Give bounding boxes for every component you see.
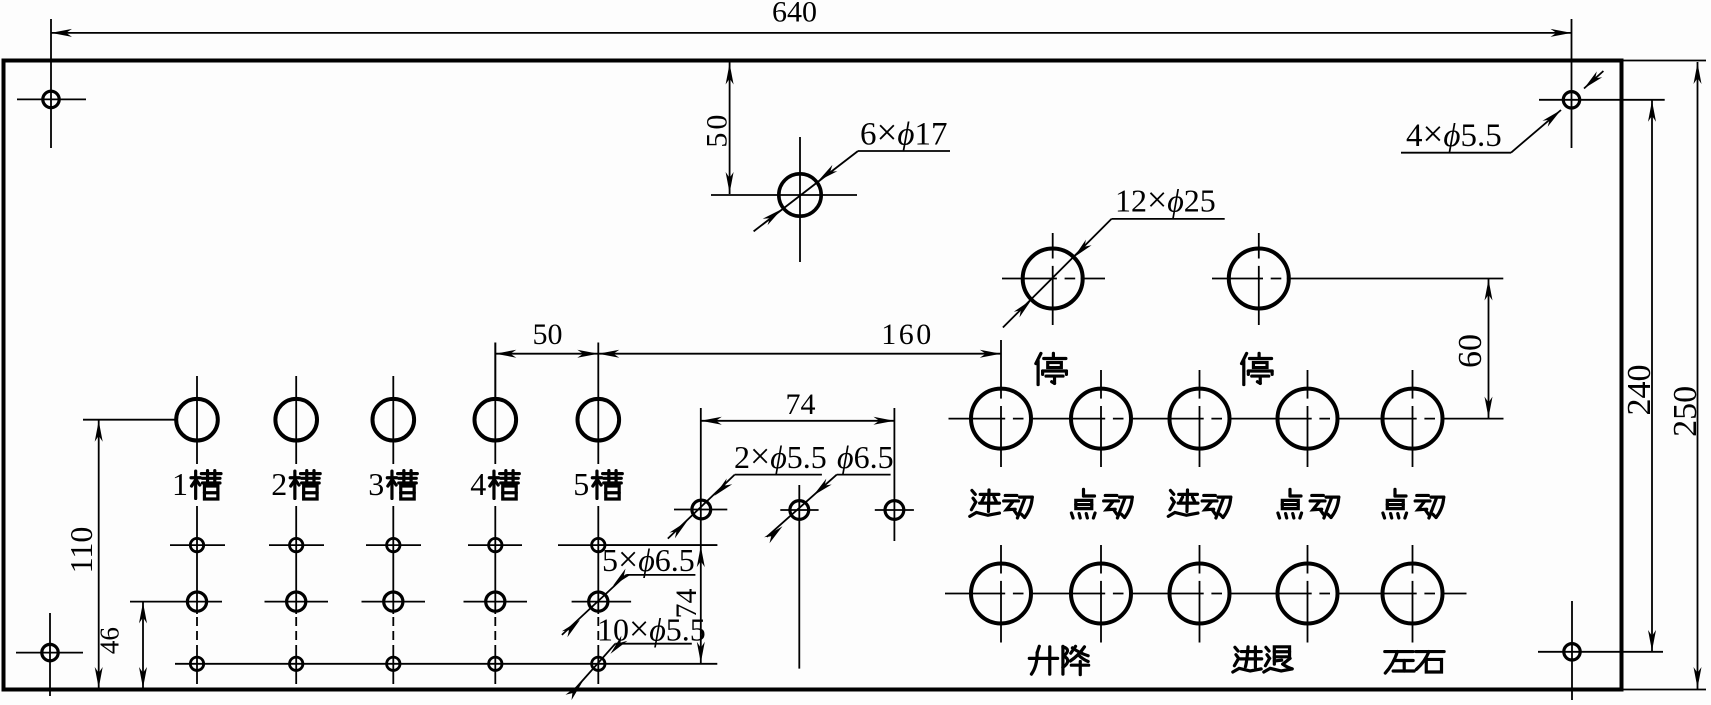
dimension text 250 xyxy=(1667,386,1704,437)
dimension line 640 xyxy=(51,29,1572,37)
hole row1 col1 (phi5.5) xyxy=(190,538,203,551)
label 2-cao xyxy=(271,466,320,502)
centerline row1 col5 xyxy=(558,544,717,546)
dimension line 50 (slots) xyxy=(495,350,598,358)
svg-text:3: 3 xyxy=(368,466,384,502)
centerline stop#2 horizontal / 60 extension xyxy=(1212,278,1503,280)
leader 4xphi5.5 far arrow xyxy=(1584,71,1603,89)
centerline hole B vertical xyxy=(798,485,800,669)
leader 4xphi5.5 diagonal xyxy=(1511,110,1561,153)
centerline bottom #1 vertical xyxy=(1000,545,1002,643)
svg-text:160: 160 xyxy=(881,318,934,351)
callout text 2xphi5.5 xyxy=(734,436,827,476)
slot column #1 vertical centerline xyxy=(196,376,198,614)
centerline row1 col2 xyxy=(269,544,324,546)
hole row3 col2 (phi5.5) xyxy=(290,657,303,670)
corner hole top-right xyxy=(1563,92,1579,108)
leader 10xphi5.5 diagonal xyxy=(566,636,628,701)
centerline row2 col1 xyxy=(130,601,222,603)
centerline gaps middle row xyxy=(999,399,1440,421)
svg-text:5×ϕ6.5: 5×ϕ6.5 xyxy=(602,539,695,579)
corner hole bottom-right xyxy=(1564,644,1580,660)
slot column #1 dashed centerline xyxy=(196,617,198,653)
slot column #4 dashed centerline xyxy=(494,617,496,653)
centerline phi17 horizontal xyxy=(711,194,857,196)
hole row1 col3 (phi5.5) xyxy=(387,538,400,551)
centerline gaps stop row xyxy=(1051,259,1287,281)
label jintui xyxy=(1233,647,1292,672)
slot column #2 vertical centerline xyxy=(295,376,297,614)
dimension text 240 xyxy=(1621,365,1658,416)
hole row3 col3 (phi5.5) xyxy=(387,657,400,670)
hole row2 col2 (phi6.5) xyxy=(287,592,306,611)
dimension line 60 xyxy=(1485,279,1493,419)
callout text 4xphi5.5 xyxy=(1406,113,1502,154)
callout text 12xphi25 xyxy=(1115,180,1216,220)
hole row1 col5 (phi5.5) xyxy=(592,538,605,551)
hole row3 col4 (phi5.5) xyxy=(489,657,502,670)
slot column #4 vertical centerline xyxy=(494,343,496,615)
centerline bottom #4 vertical xyxy=(1307,545,1309,643)
label diandong xyxy=(1278,489,1339,518)
label 4-cao xyxy=(470,466,519,502)
dimension line 250 xyxy=(1694,62,1702,689)
label ting #1 xyxy=(1036,353,1067,384)
hole row2 col1 (phi6.5) xyxy=(187,592,206,611)
centerline middle row horizontal xyxy=(949,418,1504,420)
label 3-cao xyxy=(368,466,417,502)
label shengjiang xyxy=(1029,646,1088,674)
svg-text:640: 640 xyxy=(772,0,817,29)
svg-text:5: 5 xyxy=(573,466,589,502)
dimension line 50 vertical xyxy=(726,63,734,195)
leader 6xphi17 diagonal xyxy=(754,151,858,231)
svg-text:74: 74 xyxy=(786,388,816,421)
leader 12xphi25 underline xyxy=(1112,218,1225,220)
centerline bottom-left hole vertical xyxy=(49,613,51,696)
centerline top-right hole horizontal / 240 extension xyxy=(1539,99,1665,101)
hole row2 col4 (phi6.5) xyxy=(486,592,505,611)
centerline middle #3 vertical xyxy=(1199,370,1201,467)
slot column #3 lower centerline xyxy=(392,653,394,684)
svg-text:4×ϕ5.5: 4×ϕ5.5 xyxy=(1406,113,1502,154)
hole C (phi5.5) xyxy=(885,501,904,520)
hole row1 col2 (phi5.5) xyxy=(290,538,303,551)
slot column #4 lower centerline xyxy=(494,653,496,684)
svg-text:50: 50 xyxy=(701,112,734,148)
centerline top-right hole vertical / 640 extension xyxy=(1571,19,1573,148)
svg-text:240: 240 xyxy=(1621,365,1658,416)
button hole middle row #4 (phi25) xyxy=(1278,389,1338,449)
centerline hole B horizontal xyxy=(780,509,818,511)
svg-text:1: 1 xyxy=(172,466,188,502)
label 5-cao xyxy=(573,466,622,502)
dimension text 160 xyxy=(881,318,934,351)
dimension text 74 horizontal xyxy=(786,388,816,421)
centerline row1 col1 xyxy=(170,544,225,546)
button hole bottom row #1 (phi25) xyxy=(971,564,1031,624)
hole row1 col4 (phi5.5) xyxy=(489,538,502,551)
button hole bottom row #2 (phi25) xyxy=(1071,564,1131,624)
button hole bottom row #3 (phi25) xyxy=(1170,564,1230,624)
svg-text:4: 4 xyxy=(470,466,486,502)
button hole stop #1 (phi25) xyxy=(1023,249,1083,309)
dimension line 240 xyxy=(1648,100,1656,652)
label ting #2 xyxy=(1242,353,1273,384)
bottom edge extension line to 250 dim xyxy=(1621,689,1706,691)
centerline bottom #3 vertical xyxy=(1199,545,1201,643)
centerline bottom-right hole horizontal / 240 extension xyxy=(1538,651,1663,653)
centerline gaps bottom row xyxy=(999,574,1440,596)
centerline row2 col4 xyxy=(464,601,528,603)
centerline phi17 vertical xyxy=(799,137,801,262)
extension line y=545.1 (74 vert top) xyxy=(598,544,718,546)
button hole middle row #5 (phi25) xyxy=(1383,389,1443,449)
hole row2 col3 (phi6.5) xyxy=(384,592,403,611)
extension line x=894.4 (hole C centerline) xyxy=(893,408,895,541)
button hole middle row #1 (phi25) xyxy=(971,389,1031,449)
hole A (phi5.5) near 74 dim xyxy=(692,500,711,519)
centerline middle #4 vertical xyxy=(1307,370,1309,467)
top edge extension line to 250 dim xyxy=(1621,60,1706,62)
extension line x=700.8 with 74 vertical dim arrows xyxy=(697,408,705,664)
leader 6xphi17 underline xyxy=(858,150,950,152)
leader 10xphi5.5 underline xyxy=(615,643,692,645)
slot column #5 vertical centerline xyxy=(597,343,599,615)
centerline middle #5 vertical xyxy=(1412,370,1414,467)
dimension text 640 xyxy=(772,0,817,29)
label diandong xyxy=(1383,489,1444,518)
hole row2 col5 (phi6.5) xyxy=(589,592,608,611)
extension line col4 top xyxy=(494,343,496,399)
centerline stop#1 horizontal xyxy=(1002,278,1105,280)
button hole middle row #3 (phi25) xyxy=(1170,389,1230,449)
svg-text:2×ϕ5.5: 2×ϕ5.5 xyxy=(734,436,827,476)
dimension line 110 xyxy=(95,420,103,689)
svg-text:ϕ6.5: ϕ6.5 xyxy=(837,439,894,475)
hole B (phi6.5) xyxy=(790,501,809,520)
slot column #5 dashed centerline xyxy=(597,617,599,653)
centerline bottom-right hole vertical xyxy=(1571,601,1573,700)
svg-text:12×ϕ25: 12×ϕ25 xyxy=(1115,180,1216,220)
svg-text:50: 50 xyxy=(533,318,563,351)
svg-text:60: 60 xyxy=(1452,334,1489,368)
hole row3 col1 (phi5.5) xyxy=(190,657,203,670)
dimension text 50 top xyxy=(701,112,734,148)
slot hole #4 (top circle) xyxy=(475,399,517,441)
centerline row2 col3 xyxy=(362,601,426,603)
leader 2xphi5.5 diagonal xyxy=(668,475,735,539)
centerline row2 col2 xyxy=(265,601,329,603)
corner hole bottom-left xyxy=(42,644,58,660)
label liandong xyxy=(1168,490,1231,518)
leader 2xphi5.5 underline xyxy=(735,474,822,476)
label liandong xyxy=(970,490,1033,518)
svg-text:10×ϕ5.5: 10×ϕ5.5 xyxy=(597,609,706,649)
centerline top-left hole vertical / 640 extension xyxy=(50,19,52,148)
slot column #1 lower centerline xyxy=(196,653,198,684)
dimension text 110 xyxy=(63,527,99,574)
centerline row2 col5 xyxy=(572,601,632,603)
label 1-cao xyxy=(172,466,221,502)
slot hole #1 (top circle) xyxy=(176,399,218,441)
leader 5xphi6.5 diagonal xyxy=(562,569,631,638)
centerline bottom #2 vertical xyxy=(1100,545,1102,643)
corner hole top-left xyxy=(43,91,59,107)
centerline row1 col3 xyxy=(366,544,421,546)
extension line 110 top xyxy=(83,419,176,421)
label zuoyou xyxy=(1385,652,1444,674)
dimension line 160 xyxy=(598,350,1001,358)
hole 6xphi17 xyxy=(779,174,821,216)
leader 5xphi6.5 underline xyxy=(626,574,695,576)
button hole middle row #2 (phi25) xyxy=(1071,389,1131,449)
callout text 6xphi17 xyxy=(860,112,947,153)
button hole bottom row #4 (phi25) xyxy=(1278,564,1338,624)
slot hole #3 (top circle) xyxy=(373,399,415,441)
dimension text 50 slots xyxy=(533,318,563,351)
centerline bottom #5 vertical xyxy=(1412,545,1414,643)
centerline row3 horizontal xyxy=(175,663,717,665)
centerline stop#1 vertical xyxy=(1052,233,1054,325)
button hole bottom row #5 (phi25) xyxy=(1383,564,1443,624)
centerline top-left hole horizontal xyxy=(17,98,86,100)
slot column #3 vertical centerline xyxy=(392,376,394,614)
hole row3 col5 (phi5.5) xyxy=(592,657,605,670)
svg-text:110: 110 xyxy=(63,527,99,574)
centerline hole A horizontal xyxy=(674,509,727,511)
centerline row1 col4 xyxy=(468,544,522,546)
centerline middle #1 vertical xyxy=(1000,340,1002,467)
label diandong xyxy=(1071,489,1132,518)
svg-text:6×ϕ17: 6×ϕ17 xyxy=(860,112,947,153)
svg-text:2: 2 xyxy=(271,466,287,502)
leader 4xphi5.5 underline xyxy=(1401,152,1511,154)
dimension line 74 horizontal xyxy=(701,417,895,425)
slot hole #2 (top circle) xyxy=(275,399,317,441)
leader 12xphi25 diagonal xyxy=(1003,219,1112,328)
svg-text:46: 46 xyxy=(95,627,125,654)
dimension text 74 vertical xyxy=(670,589,703,619)
button hole stop #2 (phi25) xyxy=(1229,249,1289,309)
leader phi6.5 underline xyxy=(837,474,891,476)
centerline bottom-left hole horizontal xyxy=(16,652,83,654)
callout text phi6.5 xyxy=(837,439,894,475)
slot column #5 lower centerline xyxy=(597,653,599,684)
slot column #2 lower centerline xyxy=(295,653,297,684)
svg-text:250: 250 xyxy=(1667,386,1704,437)
slot column #2 dashed centerline xyxy=(295,617,297,653)
centerline stop#2 vertical xyxy=(1258,233,1260,325)
slot column #3 dashed centerline xyxy=(392,617,394,653)
centerline middle #2 vertical xyxy=(1100,370,1102,467)
dimension text 60 xyxy=(1452,334,1489,368)
callout text 5xphi6.5 xyxy=(602,539,695,579)
centerline bottom row horizontal xyxy=(945,593,1467,595)
centerline hole C horizontal xyxy=(875,509,914,511)
leader phi6.5 diagonal xyxy=(764,475,837,544)
slot hole #5 (top circle) xyxy=(578,399,620,441)
dimension line 46 xyxy=(139,601,147,689)
callout text 10xphi5.5 xyxy=(597,609,706,649)
dimension text 46 xyxy=(95,627,125,654)
